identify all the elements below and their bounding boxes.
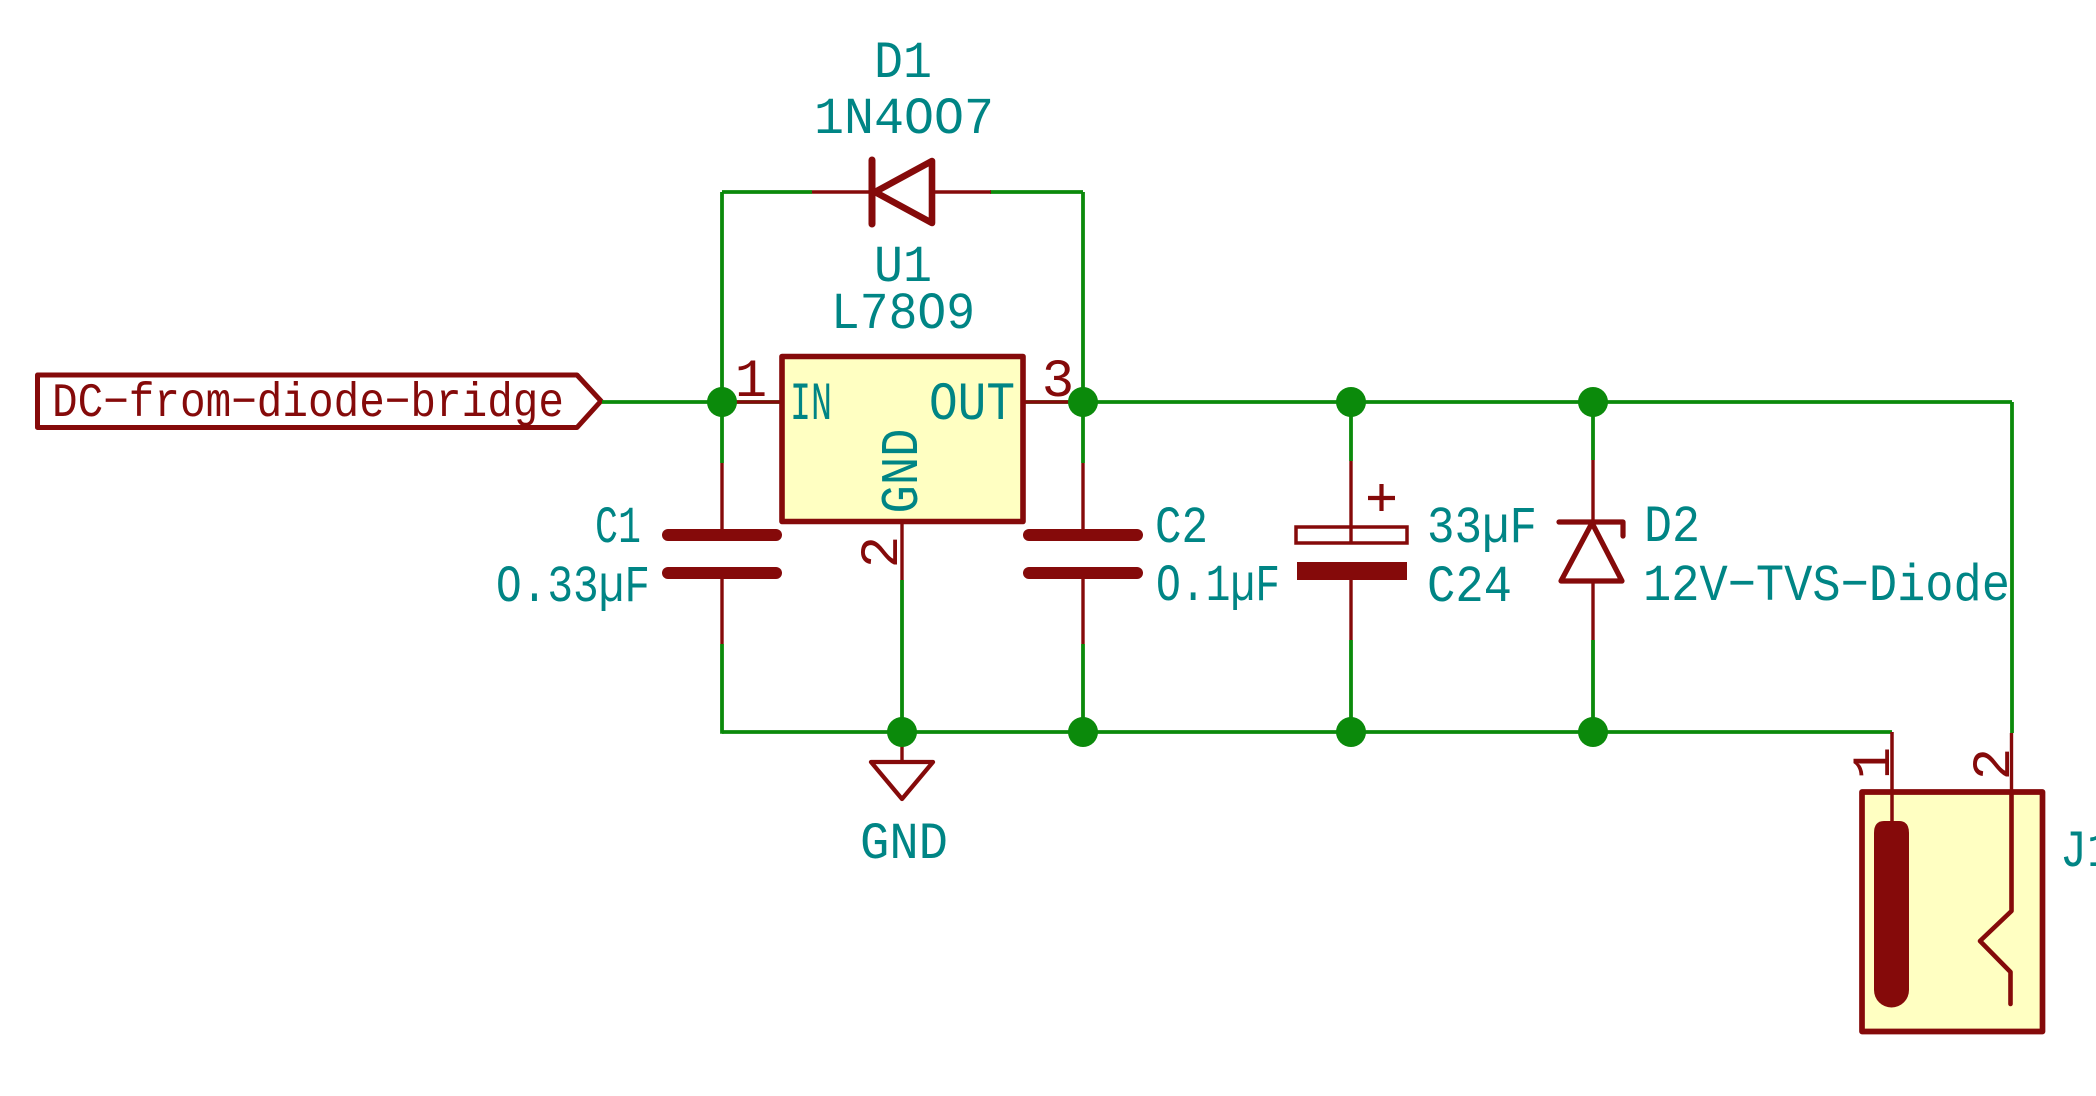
wire right edge vertical	[2010, 402, 2014, 733]
svg-text:33µF: 33µF	[1427, 499, 1537, 558]
svg-text:12V−TVS−Diode: 12V−TVS−Diode	[1643, 557, 2010, 616]
wire C2 bottom stub	[1081, 644, 1085, 732]
svg-text:DC−from−diode−bridge: DC−from−diode−bridge	[52, 377, 564, 431]
wire loop top left	[722, 190, 812, 194]
diode D2 TVS	[1559, 460, 1623, 640]
U1 pin 3	[1023, 400, 1083, 403]
svg-text:OUT: OUT	[929, 375, 1015, 436]
svg-text:GND: GND	[860, 815, 948, 874]
wire main horizontal bus	[602, 400, 2012, 404]
junction node C24 top	[1336, 387, 1366, 417]
capacitor C24 polarized	[1296, 461, 1407, 640]
svg-text:C1: C1	[595, 499, 641, 558]
svg-text:1N4OO7: 1N4OO7	[814, 90, 994, 149]
junction node OUT	[1068, 387, 1098, 417]
wire GND vertical	[900, 580, 904, 732]
svg-text:O.33µF: O.33µF	[496, 558, 650, 617]
svg-text:O.1µF: O.1µF	[1156, 557, 1280, 616]
U1 pin 1	[722, 400, 782, 403]
svg-text:C24: C24	[1427, 558, 1512, 617]
svg-text:1: 1	[1845, 747, 1906, 779]
capacitor C2	[1029, 463, 1137, 644]
junction node GND	[887, 717, 917, 747]
svg-text:2: 2	[853, 536, 914, 568]
svg-text:2: 2	[1965, 748, 2026, 780]
wire C1 bottom stub	[720, 644, 724, 734]
wire loop left vertical	[720, 192, 724, 402]
svg-text:C2: C2	[1155, 499, 1208, 558]
wire D2 top stub	[1591, 402, 1595, 460]
svg-text:IN: IN	[790, 375, 832, 436]
connector J1	[1862, 732, 2043, 1032]
junction node C24 bottom	[1336, 717, 1366, 747]
diode D1	[812, 160, 991, 224]
junction node D2 bottom	[1578, 717, 1608, 747]
svg-text:J1: J1	[2060, 823, 2096, 882]
svg-text:D1: D1	[874, 34, 932, 93]
capacitor C1	[668, 463, 776, 644]
junction node D2 top	[1578, 387, 1608, 417]
global label DC-from-diode-bridge	[38, 375, 602, 431]
wire C24 top stub	[1349, 402, 1353, 461]
svg-text:GND: GND	[873, 429, 933, 514]
junction node C2 bottom	[1068, 717, 1098, 747]
regulator U1 body	[782, 357, 1023, 522]
svg-text:1: 1	[735, 352, 767, 413]
wire bottom horizontal	[722, 730, 1892, 734]
wire C2 top stub	[1081, 402, 1085, 463]
wire C24 bottom stub	[1349, 640, 1353, 732]
svg-text:D2: D2	[1644, 498, 1700, 557]
wire loop right vertical	[1081, 192, 1085, 402]
svg-text:L78O9: L78O9	[831, 285, 975, 344]
wire C1 top stub	[720, 402, 724, 463]
U1 pin 2	[900, 521, 903, 580]
wire D2 bottom stub	[1591, 640, 1595, 732]
junction node IN	[707, 387, 737, 417]
ground symbol	[871, 732, 933, 799]
wire loop top right	[990, 190, 1083, 194]
